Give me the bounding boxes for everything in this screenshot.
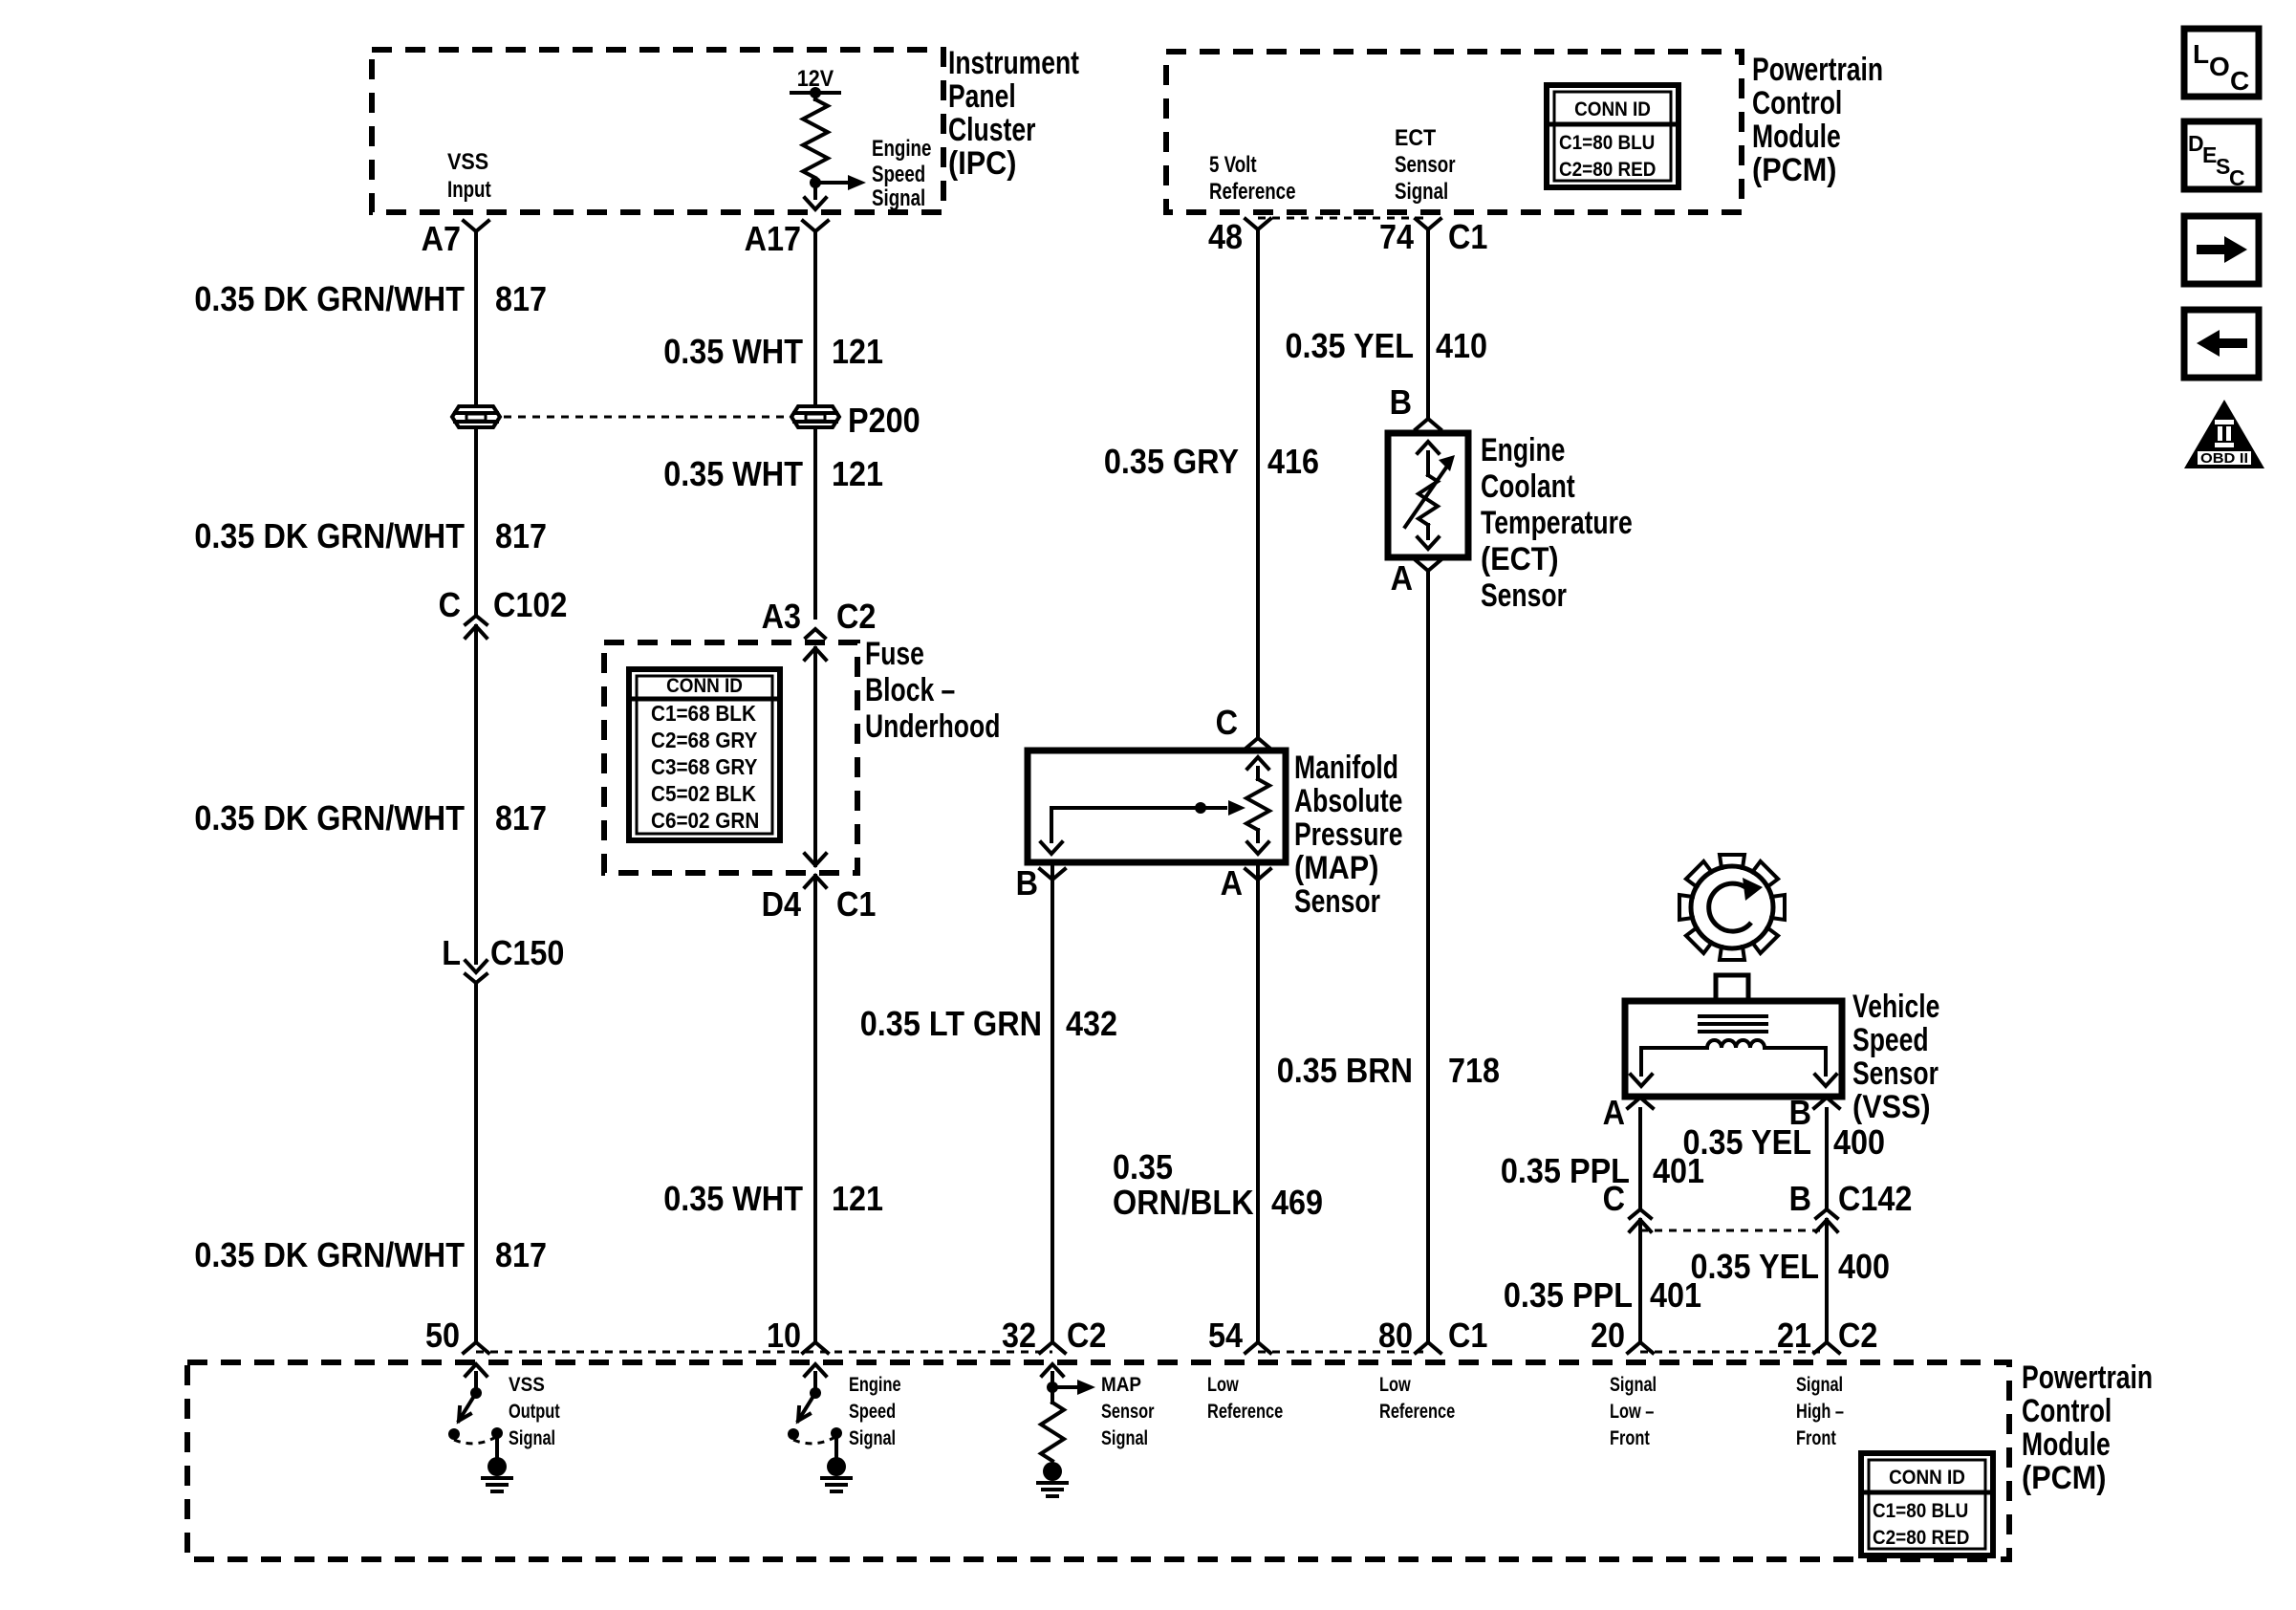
pin 50 connector	[464, 1342, 488, 1353]
svg-text:B: B	[1016, 863, 1038, 903]
svg-text:Sensor: Sensor	[1101, 1401, 1155, 1423]
svg-text:Signal: Signal	[1395, 179, 1448, 205]
wire 401 C142 to pin 20	[1638, 1220, 1642, 1342]
svg-text:Engine: Engine	[849, 1374, 901, 1396]
grommet P200 right	[791, 406, 839, 427]
label 0.35 BRN 718	[1277, 1051, 1500, 1090]
svg-text:5 Volt: 5 Volt	[1209, 152, 1257, 178]
svg-text:817: 817	[495, 279, 547, 318]
svg-text:ECT: ECT	[1395, 125, 1437, 151]
svg-text:Fuse: Fuse	[865, 636, 924, 672]
svg-text:0.35 YEL: 0.35 YEL	[1286, 326, 1415, 365]
svg-text:400: 400	[1833, 1122, 1885, 1162]
svg-text:Speed: Speed	[872, 162, 925, 187]
pin 10 connector	[803, 1342, 828, 1353]
wire C142 dashed link	[1640, 1229, 1827, 1232]
svg-text:121: 121	[832, 454, 883, 493]
label A (MAP)	[1221, 863, 1243, 903]
svg-text:Cluster: Cluster	[948, 112, 1035, 148]
svg-text:Temperature: Temperature	[1481, 505, 1633, 541]
label Low Reference 80	[1379, 1374, 1455, 1423]
wire P200 dashed link	[504, 416, 788, 419]
svg-text:0.35 BRN: 0.35 BRN	[1277, 1051, 1413, 1090]
Powertrain Control Module dashed box top	[1166, 52, 1742, 212]
label 0.35 YEL 400 lower	[1691, 1247, 1891, 1286]
svg-text:Speed: Speed	[1852, 1022, 1929, 1058]
label P200	[848, 401, 921, 440]
label 0.35 GRY 416	[1104, 442, 1319, 481]
Engine Coolant Temperature Sensor box	[1388, 433, 1468, 557]
svg-text:Control: Control	[2022, 1393, 2112, 1429]
wire 416 pin48 to MAP C	[1256, 231, 1260, 736]
connector fuse block C2 pin A3	[806, 629, 825, 638]
svg-text:Reference: Reference	[1209, 179, 1296, 205]
svg-text:C: C	[439, 585, 461, 624]
svg-text:Sensor: Sensor	[1852, 1055, 1939, 1092]
svg-text:Vehicle: Vehicle	[1852, 989, 1939, 1025]
wire PCM C1 connector dashed	[1258, 217, 1428, 220]
svg-text:A3: A3	[762, 597, 801, 636]
svg-text:C142: C142	[1838, 1179, 1912, 1218]
label 5 Volt Reference	[1209, 152, 1296, 205]
svg-text:VSS: VSS	[509, 1374, 545, 1396]
label Instrument Panel Cluster (IPC)	[948, 45, 1079, 182]
connector C150	[466, 961, 487, 983]
label 0.35 ORN/BLK 469	[1113, 1147, 1323, 1222]
svg-text:C2: C2	[836, 597, 876, 636]
svg-text:Control: Control	[1752, 85, 1842, 121]
svg-text:121: 121	[832, 1179, 883, 1218]
svg-text:OBD II: OBD II	[2200, 450, 2248, 467]
svg-text:0.35 DK GRN/WHT: 0.35 DK GRN/WHT	[194, 798, 465, 838]
svg-text:D4: D4	[762, 884, 801, 924]
svg-text:0.35 WHT: 0.35 WHT	[663, 454, 803, 493]
label 20	[1591, 1316, 1625, 1355]
icon arrow right	[2184, 216, 2259, 284]
svg-text:80: 80	[1378, 1316, 1413, 1355]
label 50	[425, 1316, 460, 1355]
svg-text:MAP: MAP	[1101, 1374, 1141, 1396]
label A (ECT)	[1391, 558, 1413, 598]
Instrument Panel Cluster dashed box	[372, 50, 943, 212]
wire 718 ECT A to pin 80	[1426, 571, 1430, 1342]
table PCM CONN ID top	[1547, 85, 1679, 187]
wire 817 C150 to pin 50	[474, 983, 478, 1342]
svg-text:Low –: Low –	[1610, 1401, 1655, 1423]
label B (VSS)	[1789, 1093, 1811, 1132]
svg-text:C1: C1	[1448, 217, 1487, 256]
svg-text:432: 432	[1066, 1004, 1117, 1043]
svg-text:32: 32	[1002, 1316, 1036, 1355]
label 0.35 LT GRN 432	[860, 1004, 1117, 1043]
label 0.35 WHT 121 third	[663, 1179, 883, 1218]
svg-text:C: C	[1603, 1179, 1625, 1218]
svg-text:ORN/BLK: ORN/BLK	[1113, 1183, 1254, 1222]
pin A17 connector	[803, 221, 828, 231]
wire 121 A17 to P200	[813, 231, 817, 406]
wire 121 through fuse block	[805, 648, 826, 865]
label VSS Output Signal	[509, 1374, 560, 1449]
label Signal Low Front	[1610, 1374, 1657, 1449]
inductor VSS pickup coil	[1631, 1016, 1836, 1086]
svg-text:Reference: Reference	[1207, 1401, 1283, 1423]
pin 21 connector	[1814, 1342, 1839, 1353]
svg-text:469: 469	[1271, 1183, 1323, 1222]
svg-text:0.35 DK GRN/WHT: 0.35 DK GRN/WHT	[194, 1235, 465, 1274]
svg-text:20: 20	[1591, 1316, 1625, 1355]
pin A connector ECT	[1416, 560, 1440, 571]
label 0.35 PPL 401 lower	[1504, 1275, 1701, 1315]
svg-text:Signal: Signal	[1101, 1427, 1148, 1449]
wire IPC resistor to pin A17	[805, 183, 826, 209]
Powertrain Control Module dashed box bottom	[187, 1362, 2009, 1559]
svg-text:Speed: Speed	[849, 1401, 896, 1423]
label 0.35 DK GRN/WHT 817 third	[194, 798, 547, 838]
svg-text:Signal: Signal	[509, 1427, 555, 1449]
svg-text:Module: Module	[1752, 119, 1841, 155]
label C (MAP)	[1216, 703, 1238, 742]
pin C connector MAP	[1245, 738, 1270, 749]
svg-text:0.35 WHT: 0.35 WHT	[663, 332, 803, 371]
svg-text:O: O	[2209, 52, 2230, 81]
svg-text:C2=68 GRY: C2=68 GRY	[651, 728, 757, 752]
icon arrow left	[2184, 310, 2259, 378]
svg-text:817: 817	[495, 1235, 547, 1274]
label 0.35 WHT 121 second	[663, 454, 883, 493]
svg-text:C150: C150	[490, 933, 564, 972]
table fuse block CONN ID	[629, 669, 780, 840]
svg-text:(ECT): (ECT)	[1481, 541, 1559, 577]
svg-text:Output: Output	[509, 1401, 560, 1423]
label 0.35 DK GRN/WHT 817 second	[194, 516, 547, 555]
svg-text:Reference: Reference	[1379, 1401, 1455, 1423]
wire 121 D4 to pin 10	[813, 876, 817, 1342]
label Fuse Block - Underhood	[865, 636, 1000, 745]
switch engine speed driver	[788, 1364, 851, 1491]
label Signal High Front	[1796, 1374, 1844, 1449]
wire 817 C102 to C150	[474, 626, 478, 963]
svg-text:817: 817	[495, 516, 547, 555]
connector fuse block C1 pin D4	[805, 876, 826, 887]
svg-text:817: 817	[495, 798, 547, 838]
icon LOC	[2184, 29, 2259, 97]
label Powertrain Control Module (PCM) bottom	[2022, 1360, 2153, 1496]
svg-text:(PCM): (PCM)	[1752, 152, 1836, 188]
svg-text:(MAP): (MAP)	[1294, 850, 1378, 886]
svg-text:C1=80 BLU: C1=80 BLU	[1873, 1500, 1968, 1522]
wire 121 P200 to A3	[813, 427, 817, 618]
label 0.35 DK GRN/WHT 817	[194, 279, 547, 318]
svg-text:Low: Low	[1207, 1374, 1239, 1396]
svg-text:B: B	[1789, 1179, 1811, 1218]
Manifold Absolute Pressure Sensor box	[1028, 751, 1286, 862]
Fuse Block Underhood dashed box	[604, 642, 857, 873]
wire 401 VSS A to C142	[1638, 1109, 1642, 1208]
svg-text:Manifold: Manifold	[1294, 750, 1398, 786]
svg-text:C2=80 RED: C2=80 RED	[1559, 159, 1656, 181]
icon DESC	[2184, 121, 2259, 190]
wire 469 MAP A to pin 54	[1256, 866, 1260, 1342]
svg-text:50: 50	[425, 1316, 460, 1355]
label Engine Speed Signal (PCM)	[849, 1374, 901, 1449]
pin 54 connector	[1245, 1342, 1270, 1353]
svg-text:Signal: Signal	[1610, 1374, 1657, 1396]
label Powertrain Control Module (PCM) top	[1752, 52, 1883, 188]
svg-text:74: 74	[1379, 217, 1414, 256]
svg-text:A17: A17	[745, 219, 801, 258]
svg-text:0.35 PPL: 0.35 PPL	[1504, 1275, 1633, 1315]
label B (MAP)	[1016, 863, 1038, 903]
svg-text:Low: Low	[1379, 1374, 1411, 1396]
wire PCM C2 connector dashed bottom left	[476, 1351, 1052, 1354]
svg-text:Module: Module	[2022, 1426, 2111, 1463]
connector C102	[466, 616, 487, 638]
svg-text:C: C	[2229, 165, 2245, 190]
pin A7 connector	[464, 221, 488, 231]
svg-text:C1=80 BLU: C1=80 BLU	[1559, 132, 1655, 154]
svg-text:A: A	[1391, 558, 1413, 598]
label Manifold Absolute Pressure (MAP) Sensor	[1294, 750, 1403, 920]
svg-text:(IPC): (IPC)	[948, 145, 1016, 182]
svg-text:Panel: Panel	[948, 78, 1016, 115]
svg-text:416: 416	[1267, 442, 1319, 481]
svg-text:Front: Front	[1796, 1427, 1836, 1449]
svg-text:Signal: Signal	[1796, 1374, 1843, 1396]
svg-text:0.35: 0.35	[1113, 1147, 1173, 1186]
icon OBD II triangle	[2184, 400, 2264, 468]
switch VSS output driver	[448, 1364, 511, 1491]
svg-text:10: 10	[767, 1316, 801, 1355]
label B C142 right	[1789, 1179, 1913, 1218]
label ECT Sensor Signal	[1395, 125, 1456, 205]
label A3 C2	[762, 597, 877, 636]
pin B connector VSS	[1814, 1098, 1839, 1108]
svg-text:410: 410	[1436, 326, 1487, 365]
svg-text:Powertrain: Powertrain	[2022, 1360, 2153, 1396]
label A7	[422, 219, 461, 258]
svg-text:C1=68 BLK: C1=68 BLK	[651, 701, 756, 726]
svg-text:A: A	[1221, 863, 1243, 903]
pin 48 connector	[1245, 219, 1270, 229]
arrow engine speed signal out	[815, 175, 866, 190]
svg-text:400: 400	[1838, 1247, 1890, 1286]
svg-text:48: 48	[1208, 217, 1243, 256]
svg-text:C: C	[2230, 66, 2249, 96]
label 12V	[797, 66, 834, 92]
svg-text:C3=68 GRY: C3=68 GRY	[651, 754, 757, 779]
svg-text:0.35 WHT: 0.35 WHT	[663, 1179, 803, 1218]
connector C142 right	[1816, 1209, 1837, 1231]
pin 74 connector	[1416, 219, 1440, 229]
svg-text:Engine: Engine	[1481, 432, 1565, 468]
label 74 C1	[1379, 217, 1487, 256]
svg-text:CONN ID: CONN ID	[1574, 98, 1651, 120]
wire 400 VSS B to C142	[1825, 1109, 1829, 1208]
wire 432 MAP B to pin 32	[1051, 866, 1054, 1342]
svg-text:(PCM): (PCM)	[2022, 1460, 2106, 1496]
pin A connector MAP	[1245, 869, 1270, 880]
grommet P200 left	[452, 406, 500, 427]
label 48	[1208, 217, 1243, 256]
node 12V supply bar	[791, 87, 839, 98]
svg-text:P200: P200	[848, 401, 921, 440]
svg-text:A: A	[1603, 1093, 1625, 1132]
label Engine Speed Signal (IPC)	[872, 136, 931, 211]
wire PCM C1 connector dashed bottom	[1258, 1351, 1428, 1354]
label 0.35 WHT 121	[663, 332, 883, 371]
svg-text:Front: Front	[1610, 1427, 1650, 1449]
svg-text:Block –: Block –	[865, 672, 955, 708]
wire PCM C2 connector dashed bottom right	[1640, 1351, 1827, 1354]
svg-text:Input: Input	[447, 177, 491, 203]
svg-text:54: 54	[1208, 1316, 1243, 1355]
label 0.35 YEL 410	[1286, 326, 1488, 365]
svg-text:C2: C2	[1067, 1316, 1106, 1355]
svg-text:0.35 LT GRN: 0.35 LT GRN	[860, 1004, 1042, 1043]
connector C142 left	[1630, 1209, 1651, 1231]
svg-text:C6=02 GRN: C6=02 GRN	[651, 808, 759, 833]
svg-text:B: B	[1390, 382, 1412, 422]
label Vehicle Speed Sensor (VSS)	[1852, 989, 1939, 1125]
label 0.35 YEL 400 upper	[1683, 1122, 1886, 1162]
label 0.35 PPL 401 upper	[1501, 1151, 1704, 1190]
svg-text:C1: C1	[836, 884, 876, 924]
pin B connector ECT	[1416, 419, 1440, 429]
pin A connector VSS	[1628, 1098, 1653, 1108]
label 80 C1	[1378, 1316, 1487, 1355]
svg-text:0.35 DK GRN/WHT: 0.35 DK GRN/WHT	[194, 279, 465, 318]
svg-text:Signal: Signal	[849, 1427, 896, 1449]
label A (VSS)	[1603, 1093, 1625, 1132]
svg-text:VSS: VSS	[447, 149, 488, 175]
svg-text:Engine: Engine	[872, 136, 931, 162]
pin B connector MAP	[1040, 869, 1065, 880]
svg-text:21: 21	[1777, 1316, 1811, 1355]
svg-text:L: L	[2193, 39, 2209, 69]
svg-text:Sensor: Sensor	[1395, 152, 1456, 178]
svg-text:0.35 DK GRN/WHT: 0.35 DK GRN/WHT	[194, 516, 465, 555]
label 32 C2	[1002, 1316, 1106, 1355]
svg-text:CONN ID: CONN ID	[666, 675, 743, 697]
resistor MAP sensor signal input	[1038, 1364, 1095, 1496]
svg-text:Absolute: Absolute	[1294, 783, 1402, 819]
svg-text:C102: C102	[493, 585, 567, 624]
potentiometer MAP	[1246, 757, 1269, 854]
label 54	[1208, 1316, 1243, 1355]
svg-text:(VSS): (VSS)	[1852, 1089, 1931, 1125]
label Engine Coolant Temperature (ECT) Sensor	[1481, 432, 1633, 614]
table PCM CONN ID bottom	[1861, 1453, 1993, 1556]
svg-text:C5=02 BLK: C5=02 BLK	[651, 781, 756, 806]
svg-text:0.35 YEL: 0.35 YEL	[1691, 1247, 1820, 1286]
svg-text:Signal: Signal	[872, 185, 925, 211]
svg-text:Sensor: Sensor	[1481, 577, 1567, 614]
label MAP Sensor Signal	[1101, 1374, 1155, 1449]
label VSS Input	[447, 149, 491, 203]
svg-text:Powertrain: Powertrain	[1752, 52, 1883, 88]
svg-text:C1: C1	[1448, 1316, 1487, 1355]
svg-text:0.35 YEL: 0.35 YEL	[1683, 1122, 1812, 1162]
wire 410 pin74 to ECT B	[1426, 231, 1430, 417]
svg-text:718: 718	[1448, 1051, 1500, 1090]
svg-text:Coolant: Coolant	[1481, 468, 1575, 505]
resistor IPC engine speed pull-up	[803, 93, 828, 178]
wire 817 A7 to P200	[474, 231, 478, 406]
svg-text:A7: A7	[422, 219, 461, 258]
label L C150	[442, 933, 564, 972]
svg-text:C2: C2	[1838, 1316, 1877, 1355]
svg-text:Instrument: Instrument	[948, 45, 1079, 81]
pin 80 connector	[1416, 1342, 1440, 1353]
label 10	[767, 1316, 801, 1355]
svg-text:C2=80 RED: C2=80 RED	[1873, 1527, 1969, 1549]
svg-text:C: C	[1216, 703, 1238, 742]
wiper MAP	[1041, 800, 1245, 854]
label 21 C2	[1777, 1316, 1877, 1355]
label A17	[745, 219, 801, 258]
svg-text:Sensor: Sensor	[1294, 883, 1380, 920]
wire 400 C142 to pin 21	[1825, 1220, 1829, 1342]
thermistor ECT	[1405, 442, 1455, 549]
gear reluctor VSS	[1679, 855, 1785, 960]
label D4 C1	[762, 884, 877, 924]
label B (ECT)	[1390, 382, 1412, 422]
svg-text:Underhood: Underhood	[865, 708, 1000, 745]
label C C102	[439, 585, 568, 624]
pin 32 connector	[1040, 1342, 1065, 1353]
wire 817 P200 to C102	[474, 427, 478, 615]
svg-text:CONN ID: CONN ID	[1889, 1467, 1965, 1489]
label C C142 left	[1603, 1179, 1625, 1218]
label Low Reference 54	[1207, 1374, 1283, 1423]
svg-text:High –: High –	[1796, 1401, 1844, 1423]
svg-text:Pressure: Pressure	[1294, 816, 1403, 853]
svg-text:0.35 GRY: 0.35 GRY	[1104, 442, 1239, 481]
label 0.35 DK GRN/WHT 817 fourth	[194, 1235, 547, 1274]
svg-text:121: 121	[832, 332, 883, 371]
node engine speed signal junction	[810, 177, 821, 188]
pin 20 connector	[1628, 1342, 1653, 1353]
Vehicle Speed Sensor box	[1625, 975, 1842, 1097]
svg-text:L: L	[442, 933, 461, 972]
